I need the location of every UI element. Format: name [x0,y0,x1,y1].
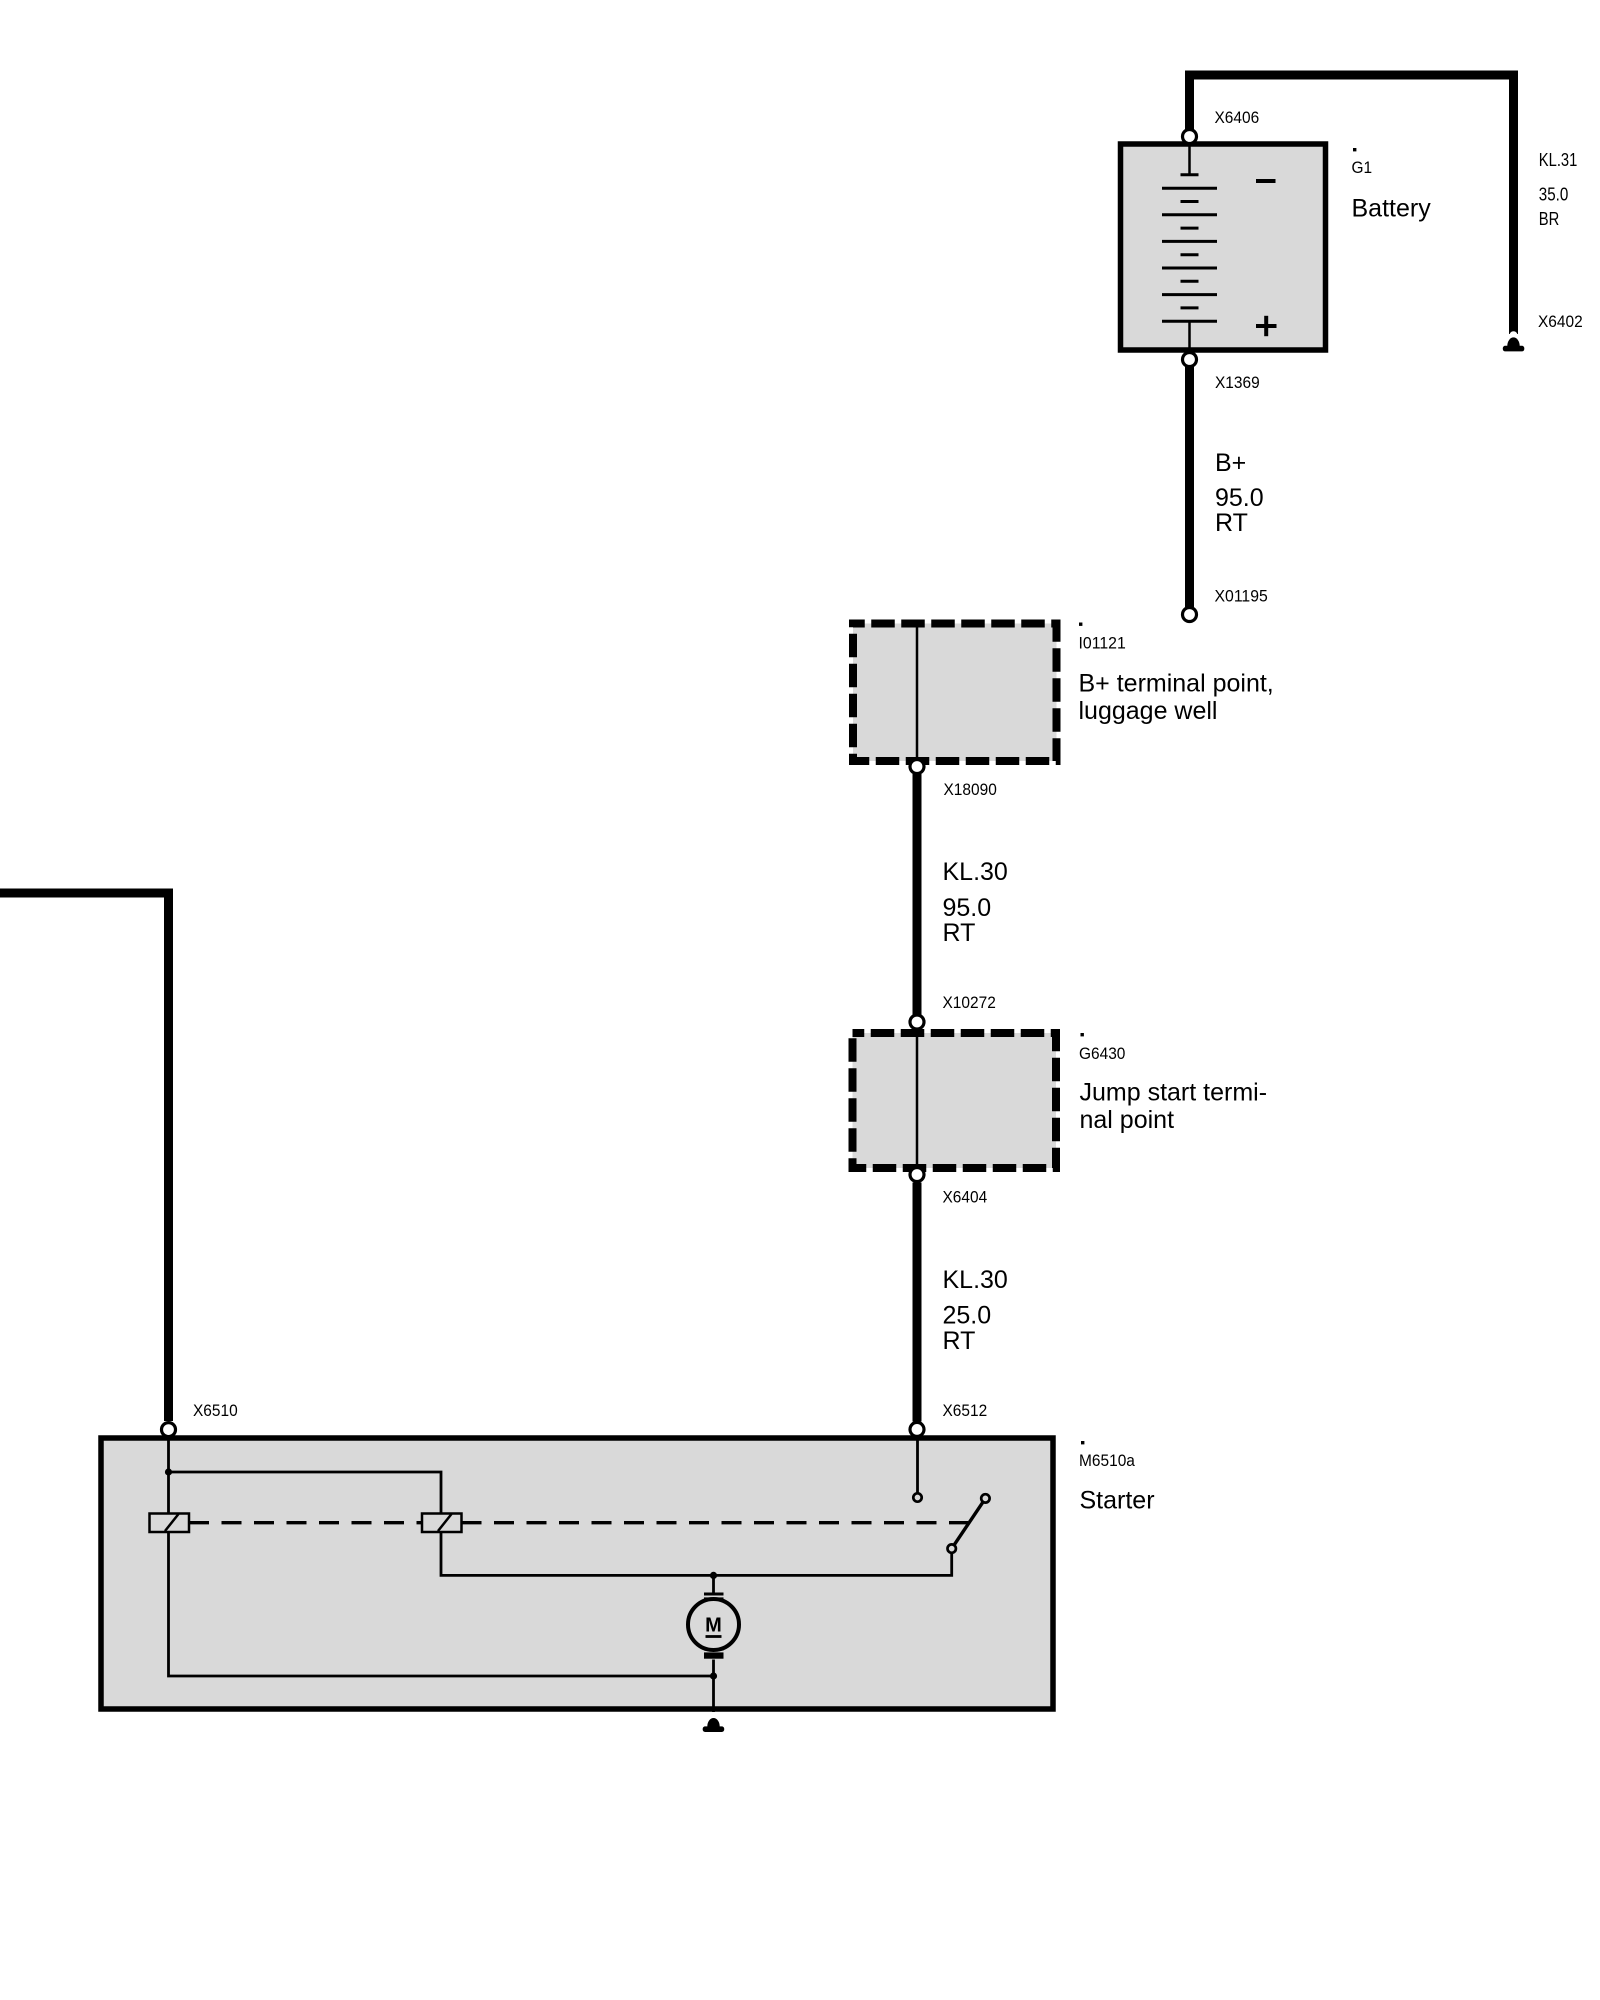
node X6404 [910,1168,924,1182]
node X01195 [1183,608,1197,622]
wire B+ from battery to X01195 [1185,366,1194,607]
svg-text:M6510a: M6510a [1079,1451,1135,1470]
motor M1 circle [688,1599,739,1650]
wire from X6406 over the top to ground X6402 [1190,75,1514,334]
dashed box I01121 B+ terminal point [853,624,1057,762]
svg-text:M: M [705,1615,722,1637]
dashed mechanical link K1 to K2 [189,1521,422,1524]
svg-text:X10272: X10272 [943,993,996,1012]
svg-text:Starter: Starter [1080,1487,1155,1515]
motor brush bar bottom [704,1649,724,1651]
svg-text:I01121: I01121 [1079,634,1126,653]
svg-text:KL.31: KL.31 [1539,150,1578,170]
label G1 Battery [1353,148,1356,151]
svg-text:95.0: 95.0 [943,894,992,922]
svg-text:G1: G1 [1352,158,1373,177]
ground X6402 [1510,331,1518,339]
dashed box G6430 jump start terminal point [853,1033,1057,1168]
svg-text:G6430: G6430 [1079,1044,1125,1063]
svg-text:X6406: X6406 [1215,108,1260,127]
switch pivot contact [948,1544,956,1552]
svg-text:X6402: X6402 [1538,312,1583,331]
svg-text:95.0: 95.0 [1215,484,1264,512]
wire K2 bottom to switch rail [441,1532,952,1575]
motor brush bar top [704,1593,724,1596]
relay coil K1 [150,1514,190,1533]
battery G1 internal cell plates [1162,146,1217,348]
svg-text:B+ terminal point,: B+ terminal point, [1079,670,1274,698]
svg-text:KL.30: KL.30 [943,1266,1008,1294]
svg-text:RT: RT [943,919,976,947]
svg-text:B+: B+ [1215,449,1246,477]
ground below starter [707,1718,719,1727]
contact at end of X6512 drop [913,1493,921,1501]
junction on motor bottom rail [710,1672,717,1679]
node X6406 [1183,130,1197,144]
svg-text:X6404: X6404 [943,1188,988,1207]
motor M feed stub top [712,1575,715,1593]
svg-text:X18090: X18090 [944,780,997,799]
svg-text:X01195: X01195 [1215,587,1268,606]
node X1369 [1183,353,1197,367]
svg-text:35.0: 35.0 [1539,185,1569,205]
svg-text:X1369: X1369 [1215,373,1260,392]
svg-text:RT: RT [943,1327,976,1355]
wire X6512 drop inside starter [916,1436,919,1493]
svg-text:X6510: X6510 [193,1401,238,1420]
wire K1 bottom to motor bottom rail [169,1532,714,1676]
starter M6510a box [101,1438,1053,1709]
motor bottom stub to rail [712,1660,715,1677]
wire inside G6430 [916,1033,919,1167]
wire KL.30 25.0 from X6404 to X6512 [913,1183,922,1422]
junction on X6510 drop [165,1468,172,1475]
svg-text:nal point: nal point [1080,1106,1175,1134]
node X10272 [910,1015,924,1029]
switch blade [952,1498,986,1548]
wire inside I01121 [916,624,919,761]
battery G1 box [1121,144,1326,350]
svg-text:Jump start termi-: Jump start termi- [1080,1079,1268,1107]
node X6510 [162,1423,176,1437]
svg-text:RT: RT [1215,509,1248,537]
label G6430 Jump start terminal point [1081,1033,1084,1036]
node X18090 [910,760,924,774]
switch upper contact [981,1494,989,1502]
svg-text:luggage well: luggage well [1079,697,1218,725]
wire motor rail to ground [712,1676,715,1712]
dashed mechanical link K2 to switch [462,1521,969,1524]
svg-text:KL.30: KL.30 [943,858,1008,886]
svg-text:Battery: Battery [1352,195,1432,223]
svg-text:25.0: 25.0 [943,1302,992,1330]
label I01121 B+ terminal point [1079,623,1082,626]
relay coil K2 [422,1514,462,1533]
junction on motor top rail [710,1572,717,1579]
svg-text:X6512: X6512 [943,1401,988,1420]
wire KL.30 feed from left edge to starter X6510 [0,893,169,1421]
wire X6510 drop inside starter [167,1436,170,1514]
node X6512 [910,1422,924,1436]
label M6510a Starter [1081,1441,1084,1444]
svg-text:BR: BR [1539,209,1560,229]
battery plus sign [1256,316,1277,336]
battery minus sign [1256,179,1276,183]
wire from junction to relay K2 [169,1472,442,1514]
wire KL.30 95.0 from X18090 to X10272 [913,774,922,1015]
